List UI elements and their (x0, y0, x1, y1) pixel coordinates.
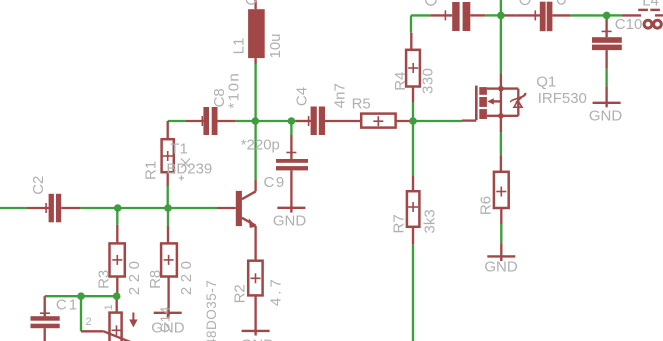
svg-text:R8: R8 (147, 270, 164, 289)
svg-text:C9: C9 (264, 174, 286, 191)
svg-text:C1: C1 (56, 296, 79, 313)
svg-text:3k3: 3k3 (421, 209, 438, 233)
svg-text:IRF530: IRF530 (538, 90, 587, 107)
svg-text:C4: C4 (294, 87, 311, 106)
svg-text:220: 220 (126, 257, 143, 296)
svg-text:*10n: *10n (226, 72, 243, 109)
svg-text:10u: 10u (267, 33, 284, 58)
svg-text:1: 1 (103, 304, 115, 310)
svg-text:GND: GND (484, 259, 518, 276)
svg-text:R2: R2 (231, 284, 248, 303)
svg-text:4n7: 4n7 (332, 83, 349, 108)
svg-text:L4: L4 (642, 0, 659, 10)
svg-text:C10: C10 (615, 16, 643, 33)
svg-text:48DO35-7: 48DO35-7 (204, 280, 219, 341)
svg-text:GND: GND (241, 337, 275, 341)
svg-text:GND: GND (273, 213, 307, 230)
svg-text:C14: C14 (157, 306, 172, 333)
svg-text:R4: R4 (392, 72, 409, 91)
svg-text:Q1: Q1 (536, 73, 556, 90)
svg-text:R1: R1 (143, 161, 160, 180)
svg-text:L1: L1 (230, 38, 247, 55)
svg-text:220: 220 (178, 257, 195, 296)
svg-text:R5: R5 (352, 96, 371, 113)
svg-text:R6: R6 (477, 196, 494, 215)
svg-text:330: 330 (420, 67, 437, 94)
svg-text:*220p: *220p (241, 137, 280, 154)
svg-text:C2: C2 (30, 176, 47, 195)
svg-text:GND: GND (589, 108, 623, 125)
svg-text:4.7: 4.7 (268, 276, 285, 306)
svg-text:R7: R7 (390, 214, 407, 233)
svg-text:BD239: BD239 (166, 161, 212, 178)
svg-text:T1: T1 (170, 141, 188, 158)
svg-text:2: 2 (86, 316, 92, 328)
svg-text:R3: R3 (95, 270, 112, 289)
